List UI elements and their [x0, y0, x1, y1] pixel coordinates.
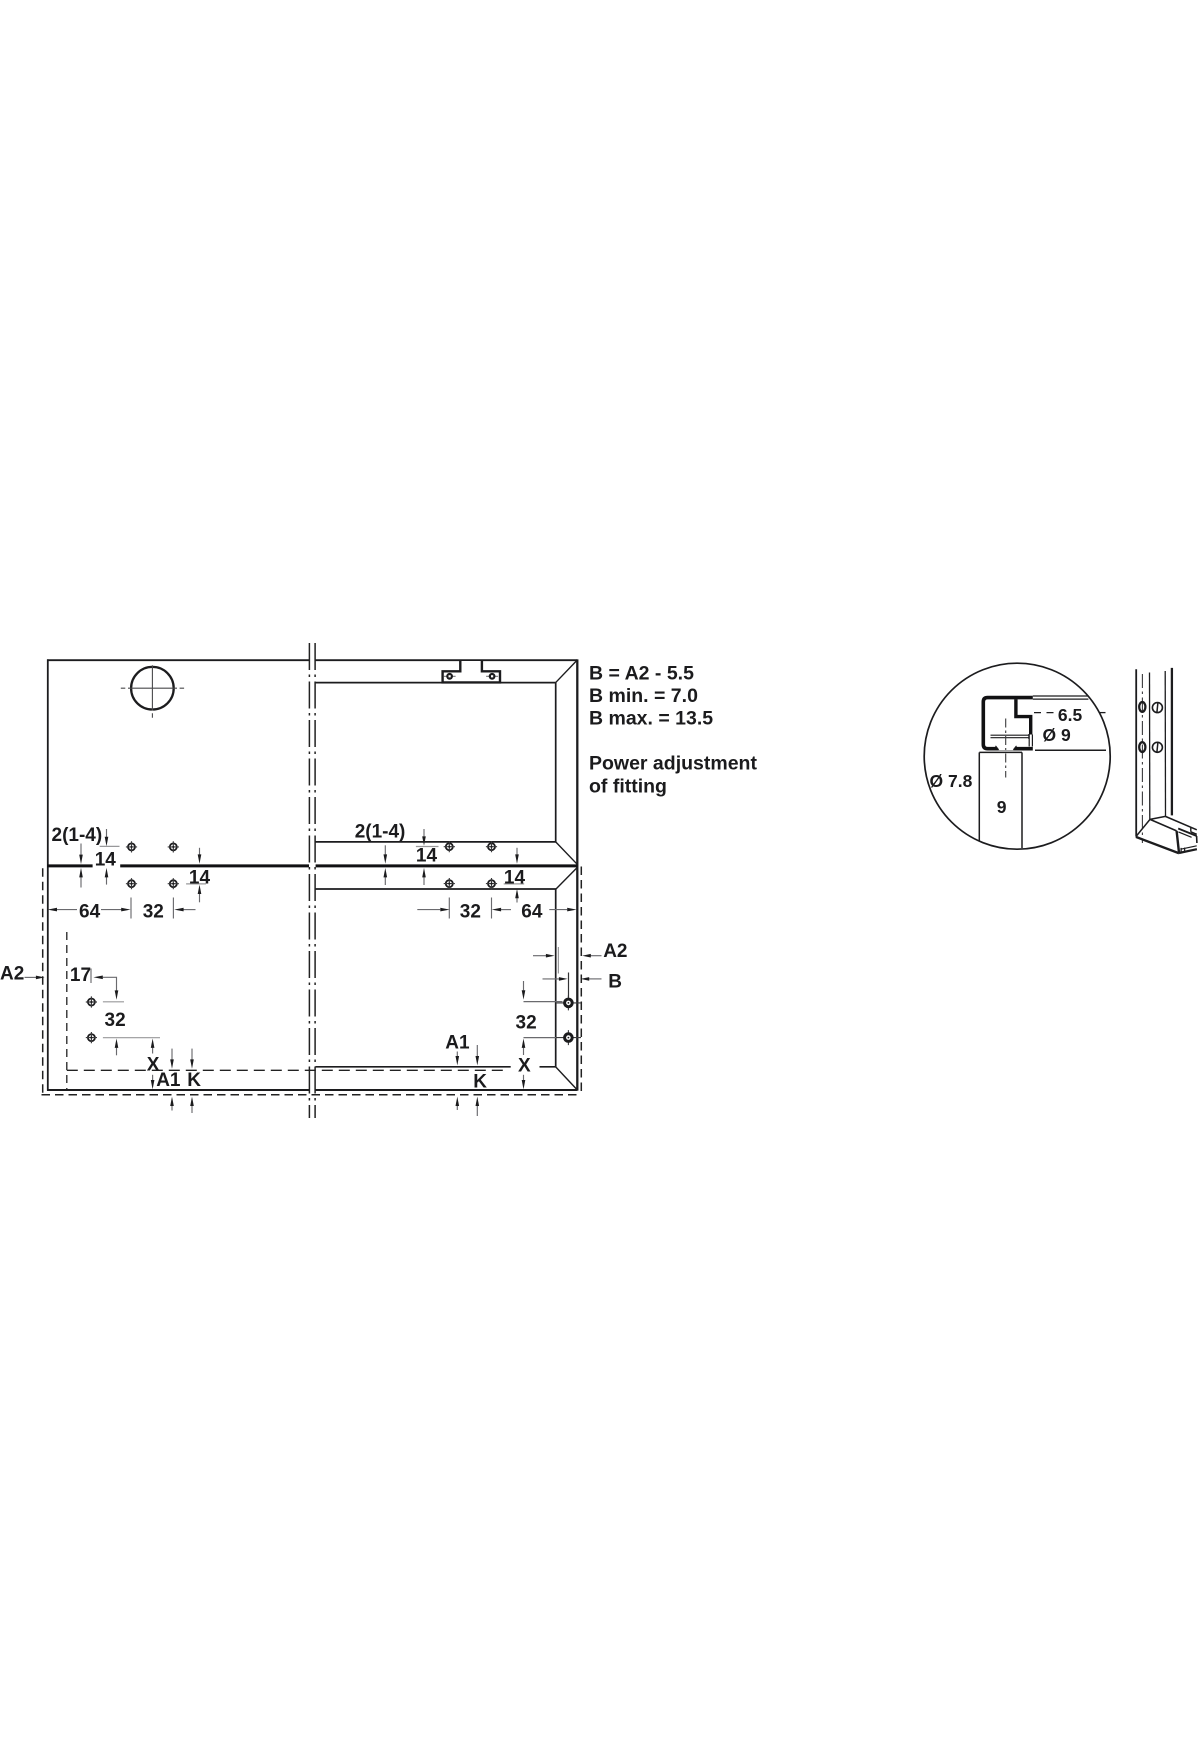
- top panel edge lines: [1033, 696, 1089, 699]
- svg-text:B: B: [608, 971, 622, 992]
- svg-text:17: 17: [70, 965, 91, 986]
- inner right edge lower section: [555, 889, 557, 1067]
- svg-text:9: 9: [997, 797, 1007, 817]
- svg-text:Ø 9: Ø 9: [1043, 725, 1071, 745]
- dim A1 K left arrows: [172, 1049, 192, 1113]
- dim A2 far left arrow: [25, 976, 37, 978]
- bottom rail back edge: [1165, 816, 1196, 829]
- screw leader vertical: [568, 973, 570, 998]
- detail circle: [924, 663, 1110, 849]
- svg-text:X: X: [518, 1055, 531, 1076]
- dashed carcase outline left: [42, 868, 44, 1095]
- dim A1 K right arrows: [457, 1045, 477, 1116]
- detail circle outline: [924, 663, 1110, 849]
- svg-text:A2: A2: [603, 941, 627, 962]
- fitting profile inner step: [1016, 699, 1031, 734]
- mitre below joint: [556, 868, 577, 889]
- inner rail line above joint: [315, 841, 555, 843]
- main front view group: [25, 643, 602, 1118]
- side panel front edge: [1135, 669, 1137, 836]
- svg-text:B max. = 13.5: B max. = 13.5: [589, 707, 713, 729]
- bracket screw right: [486, 673, 498, 680]
- side panel inner line 1: [1149, 673, 1151, 820]
- flap fitting bracket: [443, 661, 500, 682]
- bottom rail front top edge: [1150, 819, 1177, 831]
- svg-text:64: 64: [79, 902, 101, 923]
- side panel back edge: [1171, 668, 1173, 816]
- dim line hole row left column lower: [103, 1037, 160, 1039]
- dim 64 left: [57, 898, 196, 919]
- drill axis centerline side: [1141, 674, 1143, 843]
- system holes row 1 left: [126, 841, 137, 852]
- dim 32 64 right: [417, 898, 567, 919]
- drill hole oval upper: [1139, 702, 1145, 712]
- side panel screw lower: [556, 1030, 581, 1045]
- thick joint line (flap junction): [47, 864, 577, 867]
- rail lip hook: [1191, 827, 1197, 834]
- bracket screw left: [444, 673, 456, 680]
- front panel top edge: [979, 751, 1022, 753]
- drill hole oval lower: [1139, 742, 1145, 752]
- svg-text:2(1-4): 2(1-4): [52, 825, 103, 846]
- bottom rail cut edge left: [1136, 819, 1150, 836]
- screw head lower: [1152, 742, 1162, 752]
- screw head upper: [1152, 703, 1162, 713]
- inner top edge right section: [315, 682, 556, 684]
- dashed leader 6.5: [1034, 712, 1054, 714]
- cabinet bottom edge: [47, 1089, 577, 1091]
- svg-text:B min. = 7.0: B min. = 7.0: [589, 685, 698, 707]
- svg-text:of fitting: of fitting: [589, 775, 667, 797]
- hinge hole centerlines: [121, 665, 184, 717]
- mitre joint top right: [556, 661, 577, 683]
- svg-text:A2: A2: [0, 964, 24, 985]
- side panel inner line 2: [1164, 671, 1166, 816]
- dashed carcase outline right: [580, 867, 582, 1096]
- hinge hole circle: [131, 667, 174, 710]
- rail floor edge: [1179, 849, 1197, 853]
- front panel right edge: [1021, 752, 1023, 848]
- svg-text:32: 32: [516, 1012, 537, 1033]
- system holes row 2: [126, 878, 137, 889]
- side panel screw upper: [556, 995, 581, 1010]
- inner bottom edge right section: [315, 1066, 555, 1068]
- dim line at hole row 1 right: [416, 846, 439, 848]
- cabinet right edge: [576, 659, 578, 1090]
- svg-text:14: 14: [189, 867, 211, 888]
- svg-text:Ø 7.8: Ø 7.8: [930, 771, 973, 791]
- dim line at hole row 2 left: [186, 883, 206, 885]
- svg-text:K: K: [187, 1070, 201, 1091]
- side profile view: [1136, 668, 1197, 853]
- dashed inner vertical left: [66, 932, 68, 1090]
- labels: [0, 663, 1082, 1093]
- rail bottom front edge: [1136, 837, 1179, 853]
- svg-text:A1: A1: [156, 1070, 181, 1091]
- bottom rail top back corner: [1150, 816, 1165, 819]
- svg-text:14: 14: [416, 846, 438, 867]
- inner right edge upper section: [555, 682, 557, 842]
- inner rail line below joint: [315, 888, 556, 890]
- svg-text:Power adjustment: Power adjustment: [589, 753, 757, 775]
- mitre joint bottom right: [556, 1067, 577, 1090]
- mitre to joint right end: [556, 842, 577, 864]
- break line left: [308, 643, 310, 1118]
- dim line at hole row 1 left: [100, 845, 120, 847]
- dashed inner horizontal: [67, 1069, 508, 1071]
- svg-text:B = A2 - 5.5: B = A2 - 5.5: [589, 663, 694, 685]
- rail floor upstand: [1181, 848, 1185, 853]
- profile right wall lower thin: [1029, 735, 1032, 747]
- rail floor inner line: [1181, 846, 1197, 849]
- dim 2(1-4) right arrows: [385, 829, 517, 903]
- dim 17 leader: [91, 969, 117, 991]
- break line right: [314, 643, 316, 1118]
- cabinet left edge: [47, 659, 49, 1090]
- svg-text:32: 32: [105, 1010, 126, 1031]
- dim B right arrows: [543, 978, 560, 980]
- rail right wall edge: [1196, 836, 1198, 843]
- dim 32 right column arrows: [523, 981, 525, 1080]
- fitting profile outer shell: [983, 698, 1033, 749]
- panel underside line right: [1035, 749, 1106, 751]
- drill axis centerline: [1005, 719, 1007, 778]
- svg-text:2(1-4): 2(1-4): [355, 822, 406, 843]
- rail lip top: [1178, 829, 1197, 837]
- front row holes left column: [86, 996, 97, 1007]
- cabinet outer top edge: [47, 659, 577, 661]
- dim line at hole row 2 right: [504, 883, 525, 885]
- svg-text:14: 14: [95, 849, 117, 870]
- dim A2 right arrows: [533, 955, 546, 957]
- dim 2(1-4) left arrows: [81, 829, 200, 902]
- rail lip inner: [1178, 832, 1191, 837]
- dim 32 left column arrows: [117, 1048, 153, 1081]
- svg-text:32: 32: [460, 902, 481, 923]
- svg-text:K: K: [473, 1071, 487, 1092]
- profile clip shelf lines: [991, 734, 1029, 739]
- svg-text:64: 64: [521, 902, 543, 923]
- svg-text:A1: A1: [445, 1033, 470, 1054]
- front panel left edge: [978, 752, 980, 841]
- drill hole gap in profile base: [996, 746, 1017, 751]
- rail channel left wall: [1177, 831, 1179, 853]
- dim line hole row left column upper: [103, 1001, 124, 1003]
- dashed carcase outline bottom: [42, 1094, 582, 1096]
- dim line right column upper: [524, 1001, 563, 1003]
- svg-text:6.5: 6.5: [1058, 705, 1083, 725]
- flap edge extension line gray: [557, 947, 559, 974]
- svg-text:32: 32: [143, 902, 164, 923]
- dim line right column lower: [524, 1037, 557, 1039]
- svg-text:14: 14: [504, 867, 526, 888]
